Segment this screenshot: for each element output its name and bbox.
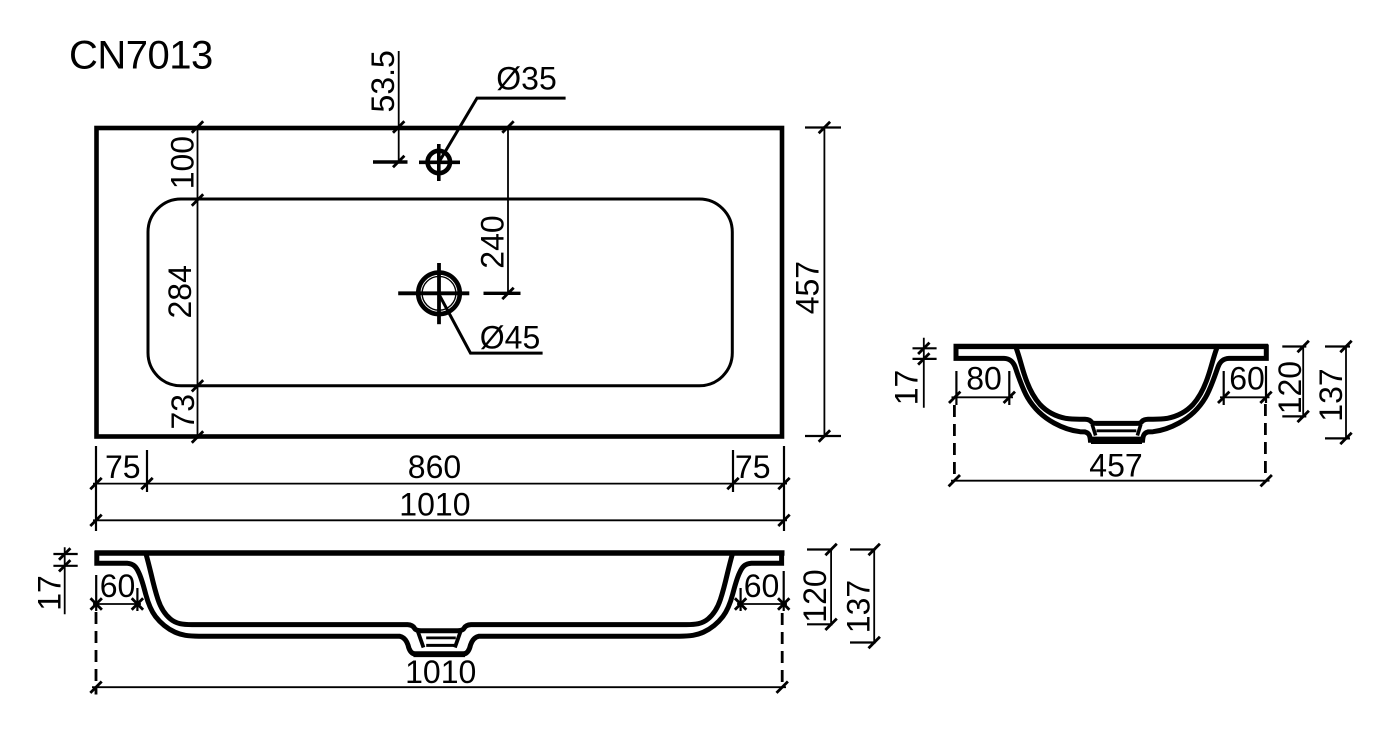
drain hole crosshair vertical — [437, 263, 441, 324]
tick 120 bottom (side) — [1298, 411, 1309, 422]
svg-text:120: 120 — [797, 569, 833, 622]
drain recess right wall (side view) — [1137, 425, 1140, 436]
tick 457 bottom right — [1261, 475, 1272, 486]
drain recess right wall (front view) — [455, 631, 461, 648]
tick 137 bottom (side) — [1340, 433, 1351, 444]
tick 53.5 top — [393, 121, 404, 132]
side view countertop line — [954, 344, 1269, 349]
svg-text:Ø45: Ø45 — [480, 320, 540, 356]
dimension line 457 (side view bottom) — [951, 480, 1270, 482]
tick 75 right a — [727, 478, 738, 489]
svg-text:457: 457 — [789, 261, 825, 314]
svg-text:75: 75 — [105, 449, 141, 485]
tick 457 bottom — [819, 430, 830, 441]
extension line left outer — [95, 446, 97, 531]
drain recess line upper (front view) — [426, 637, 456, 640]
tick 120 top (side) — [1298, 341, 1309, 352]
457 bottom extension bar — [805, 435, 841, 437]
leader line for faucet hole diameter — [439, 98, 565, 161]
80 dimension (side view) — [955, 371, 957, 405]
svg-text:120: 120 — [1272, 361, 1308, 414]
60 dimension (side view) — [1223, 371, 1225, 405]
tick 120 bottom (front) — [825, 619, 836, 630]
tick 75 left b — [141, 478, 152, 489]
tick 1010 left — [90, 515, 101, 526]
tick X 60L b — [132, 598, 143, 609]
tick 60 left (side) — [1218, 392, 1229, 403]
17 bottom extension bar (front) — [53, 565, 77, 567]
dashed projection left (side view) — [953, 405, 956, 481]
svg-text:284: 284 — [162, 265, 198, 318]
dimension line 1010 (front view) — [92, 686, 786, 688]
svg-text:860: 860 — [408, 449, 461, 485]
tick chain top edge — [192, 121, 203, 132]
60 right dimension (front view) — [739, 588, 741, 611]
17 top extension bar (front) — [53, 553, 77, 555]
17 dimension line (front view) — [64, 547, 66, 614]
tick 240 top — [502, 121, 513, 132]
drain recess line lower (front view) — [426, 644, 455, 647]
240 dimension line — [507, 127, 509, 293]
tick 17 bottom (front) — [59, 560, 70, 571]
svg-text:80: 80 — [966, 361, 1002, 397]
svg-text:100: 100 — [165, 136, 201, 189]
svg-text:137: 137 — [1313, 368, 1349, 421]
svg-text:75: 75 — [735, 449, 771, 485]
drain recess bottom block (front view) — [414, 651, 466, 657]
53.5 dimension line — [398, 51, 400, 162]
tick chain bottom edge — [192, 431, 203, 442]
tick 137 top (side) — [1340, 341, 1351, 352]
drain hole outer circle — [418, 273, 460, 315]
tick 75 right b — [778, 478, 789, 489]
tick 120 top (front) — [825, 544, 836, 555]
tick 53.5 bottom — [393, 156, 404, 167]
120 dimension (side view) — [1282, 345, 1306, 347]
svg-text:137: 137 — [841, 580, 877, 633]
tick 75 left a — [90, 478, 101, 489]
svg-text:CN7013: CN7013 — [69, 33, 213, 77]
dashed projection right (front view) — [781, 613, 784, 689]
60 left dimension (front view) — [95, 575, 97, 611]
tick chain inner bottom — [192, 380, 203, 391]
svg-text:17: 17 — [889, 370, 925, 406]
svg-text:60: 60 — [100, 568, 136, 604]
svg-text:240: 240 — [475, 215, 511, 268]
tick 457 top — [819, 122, 830, 133]
faucet hole crosshair horizontal — [419, 161, 460, 165]
tick 80 left — [949, 392, 960, 403]
120 dimension (front view) — [807, 548, 833, 550]
front view countertop line — [95, 550, 785, 555]
tick X 60R a — [735, 598, 746, 609]
extension line left inner — [146, 450, 148, 492]
tick 1010 right — [778, 515, 789, 526]
tick 17 top (front) — [59, 548, 70, 559]
dashed projection right (side view) — [1264, 404, 1267, 481]
svg-text:1010: 1010 — [405, 654, 476, 690]
front view outer shell profile — [97, 551, 782, 654]
457 top extension bar — [805, 126, 841, 128]
137 dimension (front view) — [850, 548, 876, 550]
side view inner bowl profile — [1016, 348, 1217, 424]
tick 240 bottom — [502, 288, 513, 299]
tick 80 right — [1004, 392, 1015, 403]
basin outer rectangle (top view) — [97, 128, 783, 437]
drain hole inner circle — [422, 276, 456, 310]
tick 17 top (side) — [918, 343, 929, 354]
extension line right outer — [783, 446, 785, 531]
tick 1010 front left — [90, 682, 101, 693]
dashed projection left (front view) — [95, 612, 98, 695]
svg-text:73: 73 — [165, 394, 201, 430]
svg-text:17: 17 — [32, 575, 68, 611]
drain recess middle line (side view) — [1097, 429, 1137, 432]
svg-text:60: 60 — [1229, 361, 1265, 397]
svg-text:60: 60 — [744, 568, 780, 604]
svg-text:Ø35: Ø35 — [496, 61, 556, 97]
drain recess left wall (side view) — [1092, 425, 1095, 436]
240 extension bar at drain level — [484, 292, 521, 295]
17 dimension (side view) — [923, 338, 925, 408]
tick 60 right (side) — [1260, 392, 1271, 403]
tick 137 bottom (front) — [869, 637, 880, 648]
svg-text:1010: 1010 — [399, 487, 470, 523]
svg-text:457: 457 — [1089, 448, 1142, 484]
faucet hole circle — [428, 151, 450, 173]
basin inner bowl outline (rounded rect, top view) — [148, 199, 732, 386]
drain hole crosshair horizontal — [398, 291, 469, 295]
dimension line 75/860/75 — [93, 483, 787, 485]
tick X 60L a — [91, 598, 102, 609]
faucet hole crosshair vertical — [437, 144, 441, 181]
drain recess left wall (front view) — [418, 631, 424, 648]
drain recess bottom block (side view) — [1091, 437, 1142, 444]
tick 457 bottom left — [949, 475, 960, 486]
53.5 extension bar at faucet level — [373, 160, 408, 163]
dimension line 1010 (top view) — [93, 519, 787, 521]
tick chain inner top — [192, 194, 203, 205]
tick X 60R b — [778, 598, 789, 609]
left dimension chain line (100/284/73) — [197, 126, 199, 439]
tick 1010 front right — [777, 682, 788, 693]
137 dimension (side view) — [1325, 345, 1350, 347]
svg-text:53.5: 53.5 — [365, 50, 401, 112]
extension line right inner — [732, 450, 734, 492]
leader line for drain hole diameter — [439, 294, 543, 353]
side view outer shell profile — [956, 345, 1266, 441]
tick 17 bottom (side) — [918, 353, 929, 364]
front view inner bowl profile — [146, 553, 733, 631]
457 dimension line (right of top view) — [823, 126, 825, 438]
tick 137 top (front) — [869, 544, 880, 555]
